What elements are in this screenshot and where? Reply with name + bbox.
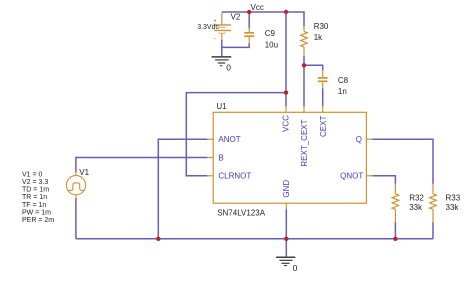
wire R32 bottom to rail [394, 222, 396, 238]
svg-text:SN74LV123A: SN74LV123A [217, 209, 266, 218]
svg-text:V2 = 3.3: V2 = 3.3 [22, 179, 48, 186]
svg-text:REXT_CEXT: REXT_CEXT [300, 119, 309, 166]
pin stub B [207, 157, 213, 159]
wire ANOT to ground rail [158, 139, 207, 239]
resistor R30 [301, 26, 308, 57]
svg-text:R33: R33 [446, 193, 461, 202]
junction dot Vcc/VCC-pin [284, 10, 288, 14]
wire battery ground drop [221, 47, 223, 56]
svg-text:TD = 1m: TD = 1m [22, 187, 49, 194]
svg-text:V2: V2 [231, 12, 241, 21]
battery V2 [214, 13, 231, 41]
wire C9 top [248, 12, 250, 28]
pin stub ANOT [207, 138, 213, 140]
junction dot R32/rail [393, 237, 397, 241]
resistor R32 [392, 184, 399, 223]
svg-text:TF = 1n: TF = 1n [22, 202, 46, 209]
svg-text:ANOT: ANOT [218, 135, 240, 144]
svg-text:Vcc: Vcc [251, 3, 264, 12]
svg-text:PER = 2m: PER = 2m [22, 217, 54, 224]
wire QNOT to R32 [373, 176, 396, 184]
junction dot R30/C8 [302, 63, 306, 67]
pin stub CLRNOT [207, 175, 213, 177]
svg-text:V1: V1 [79, 168, 89, 177]
svg-text:CEXT: CEXT [319, 116, 328, 137]
pin stub REXT_CEXT [303, 106, 305, 112]
svg-text:0: 0 [226, 63, 231, 73]
wire junction to C8 [304, 65, 323, 70]
svg-text:TR = 1n: TR = 1n [22, 194, 47, 201]
pin stub GND [285, 203, 287, 209]
wire Q to R33 [373, 139, 434, 184]
svg-text:PW = 1m: PW = 1m [22, 209, 51, 216]
svg-text:33k: 33k [409, 203, 423, 212]
svg-text:R30: R30 [314, 22, 329, 31]
svg-text:3.3Vdc: 3.3Vdc [197, 24, 219, 31]
svg-text:GND: GND [282, 180, 291, 198]
wire Vcc rail [222, 12, 304, 27]
svg-text:1k: 1k [314, 33, 323, 42]
svg-text:0: 0 [293, 263, 298, 273]
svg-text:CLRNOT: CLRNOT [218, 172, 251, 181]
svg-text:U1: U1 [216, 102, 227, 111]
junction dot VCC/CLR tie [284, 90, 288, 94]
svg-text:V1 = 0: V1 = 0 [22, 171, 43, 178]
svg-text:33k: 33k [446, 203, 460, 212]
resistor R33 [430, 184, 437, 223]
svg-text:10u: 10u [265, 41, 278, 50]
svg-text:QNOT: QNOT [340, 172, 363, 181]
svg-text:Q: Q [356, 135, 362, 144]
wire VCC pin drop [285, 12, 287, 107]
wire CLRNOT tie to Vcc [186, 93, 286, 176]
pin stub Q [366, 138, 372, 140]
svg-text:1n: 1n [338, 87, 347, 96]
pin stub CEXT [322, 106, 324, 112]
junction dot GND/rail [284, 237, 288, 241]
pin stub QNOT [366, 175, 372, 177]
ground 0 under V2 [212, 57, 232, 66]
pin stub VCC [285, 106, 287, 112]
svg-text:R32: R32 [409, 193, 424, 202]
capacitor C8 [318, 70, 328, 89]
wire ground rail (bottom) [76, 238, 433, 240]
wire GND pin to ground symbol [285, 209, 287, 256]
wire R33 bottom to rail [432, 222, 434, 238]
svg-text:B: B [218, 153, 223, 162]
wire V1 bottom to rail [75, 198, 77, 239]
source V1 (VPULSE) [66, 172, 85, 199]
wire R30 bottom to REXT_CEXT pin [303, 56, 305, 107]
IC U1 body [213, 112, 366, 203]
V1 parameter text block [22, 171, 54, 224]
wire battery bottom to C9 bottom [222, 40, 249, 47]
svg-text:VCC: VCC [282, 115, 291, 132]
capacitor C9 [244, 28, 254, 44]
wire B to V1 [76, 158, 207, 173]
junction dot Vcc/C9 [247, 10, 251, 14]
battery V2 polarity marks [214, 18, 217, 41]
junction dot ANOT/rail [156, 237, 160, 241]
svg-text:C9: C9 [265, 29, 276, 38]
wire C8 bottom to CEXT pin [322, 89, 324, 107]
ground 0 (main, bottom) [276, 257, 295, 265]
svg-text:C8: C8 [338, 76, 349, 85]
